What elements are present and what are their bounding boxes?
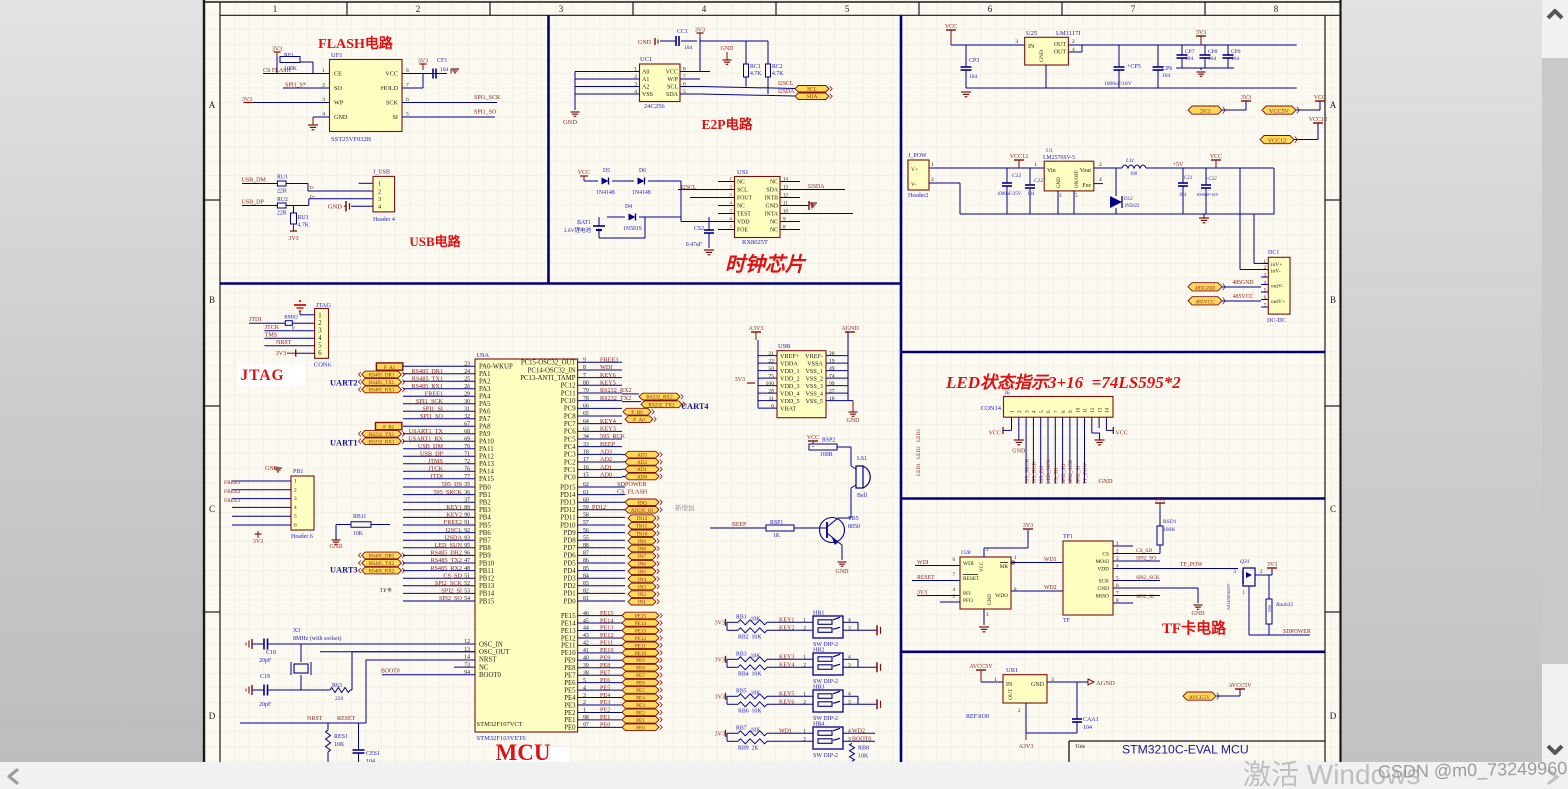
svg-text:RF1: RF1 [284,53,294,59]
svg-text:PE12: PE12 [561,635,576,642]
svg-text:1000uF/25V: 1000uF/25V [997,192,1022,197]
svg-text:SPI1_SI: SPI1_SI [422,405,443,412]
svg-text:RS485_DR1: RS485_DR1 [411,368,443,375]
svg-text:RB4 10K: RB4 10K [738,671,762,677]
svg-text:A3V3: A3V3 [1019,744,1034,750]
svg-text:PE12: PE12 [600,632,613,639]
svg-text:PA7: PA7 [479,416,491,423]
svg-text:C19: C19 [260,674,270,680]
svg-text:3V3: 3V3 [715,731,725,737]
svg-text:AGND: AGND [841,326,859,332]
svg-text:PE1: PE1 [636,718,645,724]
svg-text:SCL: SCL [737,188,748,194]
svg-text:PC7: PC7 [564,421,576,428]
svg-text:AVCC5V: AVCC5V [969,664,993,670]
svg-text:330: 330 [1267,605,1272,613]
svg-text:VDD_2: VDD_2 [780,375,800,382]
svg-text:PE15: PE15 [561,613,576,620]
svg-text:PD4: PD4 [564,568,577,575]
svg-text:PB10: PB10 [479,560,495,567]
svg-text:+C22: +C22 [1205,177,1217,182]
svg-text:PD2: PD2 [564,583,577,590]
svg-text:SPI2_SO: SPI2_SO [1061,463,1067,484]
svg-text:X3: X3 [293,628,300,634]
svg-text:4: 4 [1032,410,1038,413]
svg-text:J_USB: J_USB [373,170,390,176]
svg-text:P_A0: P_A0 [633,417,645,423]
svg-text:PE8: PE8 [564,665,576,672]
svg-text:USB_DP: USB_DP [420,450,444,457]
svg-text:PD5: PD5 [564,560,577,567]
svg-text:PA6: PA6 [479,409,491,416]
svg-text:UC1: UC1 [640,56,652,63]
svg-text:PC1: PC1 [564,467,576,474]
svg-text:IN7: IN7 [638,554,646,560]
svg-text:C21: C21 [1184,176,1192,181]
svg-text:MOSI: MOSI [1096,559,1110,565]
svg-text:1: 1 [931,162,934,168]
svg-text:IN5: IN5 [638,569,646,575]
svg-text:GND: GND [1097,586,1109,592]
svg-text:3.6V锂电池: 3.6V锂电池 [564,226,592,234]
svg-text:FLASH电路: FLASH电路 [318,35,394,52]
svg-text:24C256: 24C256 [644,103,665,110]
svg-text:RS485_RX2: RS485_RX2 [430,565,462,572]
svg-text:3: 3 [378,196,381,203]
svg-text:A3V3: A3V3 [749,326,764,332]
svg-text:IN2: IN2 [638,592,646,598]
svg-text:VREF+: VREF+ [780,353,800,360]
svg-text:485VCC: 485VCC [1233,294,1254,300]
svg-text:PFO: PFO [963,598,973,604]
svg-text:CS2: CS2 [694,226,704,232]
svg-text:PE14: PE14 [600,617,613,624]
svg-text:HB4: HB4 [813,721,824,727]
svg-text:PB11: PB11 [479,568,494,575]
svg-text:TF1: TF1 [1063,534,1073,540]
svg-text:FREE2: FREE2 [444,519,462,526]
svg-text:PD12: PD12 [592,504,606,511]
svg-text:KEY2: KEY2 [779,625,794,631]
svg-text:CES1: CES1 [366,751,380,757]
svg-text:CAA1: CAA1 [1083,717,1099,723]
svg-text:IN: IN [1028,44,1035,50]
svg-text:C12: C12 [1012,173,1021,179]
svg-text:RB11: RB11 [353,514,366,520]
svg-text:SCL: SCL [807,87,818,93]
svg-text:3V3: 3V3 [288,236,298,242]
svg-text:TEST: TEST [737,212,751,218]
svg-text:PE4: PE4 [564,695,576,702]
svg-text:8050: 8050 [848,524,860,530]
svg-text:LM1117I: LM1117I [1056,30,1080,37]
svg-text:7: 7 [1054,410,1060,413]
svg-text:595_SRCK: 595_SRCK [433,489,462,496]
svg-text:Q31: Q31 [1240,559,1250,565]
svg-text:KEY2: KEY2 [446,512,462,519]
svg-text:LM2576SV-5: LM2576SV-5 [1043,155,1075,161]
svg-text:UART3: UART3 [330,566,358,575]
svg-text:595_DS: 595_DS [1039,466,1045,484]
svg-text:220: 220 [335,696,344,702]
svg-text:PB9: PB9 [479,553,491,560]
svg-text:PE0: PE0 [636,725,645,731]
svg-text:2: 2 [803,625,806,631]
svg-text:A: A [1330,100,1337,110]
svg-text:PC0: PC0 [564,475,576,482]
svg-text:5: 5 [845,4,850,14]
svg-text:100R: 100R [820,452,833,458]
svg-text:SDPOWER: SDPOWER [1283,629,1311,635]
svg-text:GND: GND [1098,478,1112,485]
svg-text:PB8: PB8 [479,545,491,552]
svg-text:SPI1_SCK: SPI1_SCK [474,95,501,101]
svg-text:104: 104 [1208,56,1217,62]
svg-text:GND: GND [334,114,348,121]
svg-text:595_RCK: 595_RCK [600,433,626,440]
svg-text:VCC12: VCC12 [1309,117,1327,123]
svg-text:PE10: PE10 [600,647,613,654]
svg-text:RB7: RB7 [736,725,747,731]
svg-text:6: 6 [318,350,322,357]
svg-text:SDA: SDA [806,94,817,100]
svg-text:KEY4: KEY4 [600,418,616,425]
svg-text:VSS_5: VSS_5 [805,398,823,405]
svg-text:RESET: RESET [337,716,356,722]
svg-text:VCC: VCC [385,71,398,78]
svg-text:VSS: VSS [642,92,653,98]
svg-text:J6: J6 [1005,391,1010,397]
svg-text:RS232_RX1: RS232_RX1 [369,440,395,445]
svg-text:US1: US1 [737,169,749,176]
svg-text:SDPOWER: SDPOWER [617,481,647,488]
svg-text:1N5822: 1N5822 [1124,204,1140,209]
svg-text:PE15: PE15 [600,610,613,617]
svg-text:SPI2_SO: SPI2_SO [439,595,463,602]
svg-text:CP9: CP9 [1231,49,1241,55]
svg-text:PE6: PE6 [600,677,610,684]
svg-text:PA12: PA12 [479,454,494,461]
svg-text:V+: V+ [911,167,918,173]
svg-text:RS485_TX1: RS485_TX1 [369,381,395,386]
svg-text:IN6: IN6 [638,562,646,568]
svg-text:PD1: PD1 [564,591,576,598]
svg-text:A: A [209,100,216,110]
svg-text:BOOT0: BOOT0 [852,736,871,742]
svg-text:4.7K: 4.7K [298,223,310,229]
svg-text:SPI2_SI: SPI2_SI [1075,465,1081,484]
svg-text:AD1: AD1 [637,467,647,473]
svg-text:SI: SI [392,114,398,121]
svg-text:JTDI: JTDI [430,473,443,480]
svg-text:IN10: IN10 [637,531,648,537]
svg-text:ON/OFF: ON/OFF [1075,170,1080,188]
svg-text:104: 104 [1083,725,1092,731]
svg-text:104: 104 [440,67,449,73]
svg-text:100K: 100K [1163,527,1175,533]
svg-text:inV+: inV+ [1271,262,1282,268]
svg-text:CP3: CP3 [969,58,979,64]
svg-text:VCC: VCC [1116,431,1128,437]
svg-text:PB1: PB1 [479,492,491,499]
svg-text:I2SCL: I2SCL [778,81,794,87]
svg-text:RS232_TX1: RS232_TX1 [369,433,395,438]
svg-text:PD11: PD11 [560,515,575,522]
svg-text:PA14: PA14 [479,469,494,476]
svg-text:RS485_RX2: RS485_RX2 [369,570,395,575]
svg-text:WP: WP [334,100,344,107]
svg-text:TF_POW: TF_POW [1180,562,1203,568]
svg-text:PE11: PE11 [561,643,575,650]
svg-text:RS485_RX1: RS485_RX1 [369,389,395,394]
svg-text:PE5: PE5 [636,688,645,694]
svg-text:VCC12: VCC12 [1268,138,1286,144]
svg-text:VCC5V: VCC5V [1269,109,1289,115]
svg-text:JDQ: JDQ [637,500,647,506]
svg-text:PE0: PE0 [564,725,576,732]
svg-text:PD12: PD12 [560,507,576,514]
svg-text:USB_DM: USB_DM [418,443,444,450]
svg-text:AVCC5V: AVCC5V [1228,683,1252,689]
svg-text:AD3: AD3 [600,449,612,456]
svg-text:RS485_TX2: RS485_TX2 [369,562,395,567]
svg-text:PC12: PC12 [560,383,576,390]
svg-text:DC-DC: DC-DC [1267,318,1286,324]
svg-text:UART4: UART4 [681,402,709,411]
svg-text:RS485_DR1: RS485_DR1 [369,374,395,379]
svg-text:LED2: LED2 [916,446,922,459]
svg-text:PE9: PE9 [600,655,610,662]
svg-text:10K: 10K [751,617,762,623]
svg-text:HB2: HB2 [813,647,824,653]
svg-text:W/P: W/P [667,77,678,83]
svg-text:PE7: PE7 [564,673,576,680]
svg-text:WDI: WDI [600,364,612,371]
svg-text:1: 1 [378,181,381,188]
svg-text:PC8: PC8 [564,413,576,420]
svg-text:SCK: SCK [1099,579,1110,585]
svg-text:FOUT: FOUT [737,196,753,202]
svg-text:outV+: outV+ [1271,299,1285,305]
svg-text:LED_SUN: LED_SUN [435,542,463,549]
svg-text:JTAG: JTAG [240,367,284,384]
svg-text:PFI: PFI [963,591,971,597]
svg-text:PE7: PE7 [600,669,610,676]
svg-text:2: 2 [931,177,934,183]
svg-text:3V3: 3V3 [418,59,428,65]
svg-text:JTDI: JTDI [249,317,261,323]
svg-text:8: 8 [1061,410,1067,413]
svg-text:PE3: PE3 [600,699,610,706]
svg-text:GND: GND [1039,50,1045,62]
svg-text:RES1: RES1 [334,734,348,740]
svg-text:PE2: PE2 [600,707,610,714]
svg-text:Header2: Header2 [908,193,928,199]
svg-text:A034/08/S2307: A034/08/S2307 [1226,583,1231,610]
svg-text:GND: GND [847,418,861,424]
svg-text:LED3: LED3 [916,429,922,442]
svg-text:PE9: PE9 [564,658,576,665]
svg-text:CS_SD: CS_SD [443,572,462,579]
svg-text:1000uF/16V: 1000uF/16V [1104,81,1132,87]
svg-text:GND: GND [1057,177,1062,188]
svg-text:FREE3: FREE3 [224,498,241,504]
svg-text:TF: TF [1063,618,1071,624]
svg-text:NC: NC [737,204,745,210]
svg-text:PA0-WKUP: PA0-WKUP [479,364,513,371]
svg-text:SPI2_SI: SPI2_SI [441,588,462,595]
svg-text:KEY6: KEY6 [600,372,616,379]
svg-text:RS232_TX2: RS232_TX2 [600,395,631,402]
svg-text:PE2: PE2 [636,710,645,716]
svg-text:inV-: inV- [1271,269,1281,275]
svg-text:595_RCK: 595_RCK [1032,462,1038,484]
svg-text:IN: IN [1006,682,1013,688]
svg-text:485GND: 485GND [1232,280,1253,286]
svg-text:RS485_RX1: RS485_RX1 [411,383,443,390]
svg-text:3V3: 3V3 [1023,523,1033,529]
svg-text:RU2: RU2 [277,197,288,203]
svg-text:I2SCL: I2SCL [681,185,697,191]
svg-text:UART1: UART1 [330,439,358,448]
svg-text:+5V: +5V [1173,162,1184,168]
svg-text:SW DIP-2: SW DIP-2 [813,753,838,759]
svg-text:GND: GND [265,466,279,472]
svg-text:PB5: PB5 [479,522,491,529]
svg-text:AGND: AGND [1096,680,1115,687]
svg-text:1K: 1K [773,533,781,539]
svg-text:LED_SUN: LED_SUN [1046,460,1052,484]
svg-text:RB5: RB5 [736,688,747,694]
svg-text:7: 7 [1131,4,1136,14]
svg-text:PB3: PB3 [479,507,491,514]
svg-text:BEEP: BEEP [600,441,616,448]
svg-text:PB13: PB13 [479,583,495,590]
svg-text:2: 2 [318,320,322,327]
svg-text:E2P电路: E2P电路 [701,116,753,132]
svg-text:IN11: IN11 [637,524,648,530]
svg-text:1: 1 [803,654,806,660]
svg-text:595_DS: 595_DS [442,481,463,488]
svg-text:2: 2 [1099,162,1102,168]
svg-text:PC2: PC2 [564,459,576,466]
svg-text:3: 3 [294,496,297,502]
svg-text:CP6: CP6 [1162,66,1172,72]
svg-text:Fee: Fee [1082,183,1091,189]
svg-text:PA9: PA9 [479,431,491,438]
svg-text:USB_DM: USB_DM [242,178,267,184]
svg-text:11: 11 [1083,408,1089,413]
svg-text:MR: MR [1000,564,1009,570]
svg-text:1: 1 [273,4,278,14]
svg-text:B: B [1330,295,1336,305]
svg-text:3V3: 3V3 [1155,497,1165,503]
svg-text:6: 6 [988,4,993,14]
svg-text:C12: C12 [1034,178,1043,184]
svg-text:IN1: IN1 [638,600,646,606]
svg-text:1000uF/16V: 1000uF/16V [1196,192,1220,197]
svg-text:2: 2 [803,736,806,742]
svg-text:USB_DP: USB_DP [242,200,265,206]
svg-text:PE3: PE3 [636,703,645,709]
svg-text:PE13: PE13 [561,628,576,635]
svg-text:VSS_3: VSS_3 [805,383,823,390]
svg-text:TB5: TB5 [848,516,859,522]
svg-text:JTCK: JTCK [265,325,280,331]
svg-text:AD2: AD2 [637,460,647,466]
svg-text:RC2: RC2 [772,64,783,70]
svg-text:2: 2 [294,487,297,493]
svg-text:CP8: CP8 [1208,49,1218,55]
svg-text:2: 2 [803,662,806,668]
svg-text:VDD_5: VDD_5 [780,398,800,405]
svg-text:WDI: WDI [963,561,974,567]
svg-text:PE4: PE4 [600,692,610,699]
svg-text:PB12: PB12 [479,576,495,583]
svg-text:14: 14 [1105,407,1111,413]
svg-text:USART1_TX: USART1_TX [409,428,444,435]
svg-text:LED1: LED1 [916,463,922,476]
svg-text:PE11: PE11 [600,640,613,647]
svg-text:1: 1 [318,312,321,319]
svg-text:RS485_TX1: RS485_TX1 [412,375,443,382]
svg-text:AD2: AD2 [600,456,612,463]
svg-text:CF1: CF1 [437,58,447,64]
svg-text:WDO: WDO [995,593,1008,599]
svg-text:3: 3 [559,4,564,14]
svg-text:2: 2 [416,4,421,14]
svg-text:RB6 10K: RB6 10K [738,708,762,714]
svg-text:SPI1_SO: SPI1_SO [474,110,497,116]
svg-text:D: D [1330,711,1337,721]
svg-text:D4: D4 [625,204,632,210]
svg-text:PE5: PE5 [600,684,610,691]
svg-text:VSSA: VSSA [807,360,823,367]
svg-text:D5: D5 [603,168,610,174]
svg-text:KEY4: KEY4 [779,662,794,668]
svg-text:PE5: PE5 [564,687,576,694]
svg-text:10K: 10K [353,531,364,537]
svg-text:C: C [1330,504,1336,514]
svg-text:VCC: VCC [1210,154,1222,160]
svg-text:CS: CS [1102,552,1109,558]
svg-text:SST25VF032B: SST25VF032B [331,136,372,143]
svg-text:RB1: RB1 [736,614,747,620]
svg-text:LS1: LS1 [857,456,867,462]
svg-text:3V3: 3V3 [735,377,745,383]
svg-text:PA8: PA8 [479,424,491,431]
svg-text:2: 2 [378,188,381,195]
svg-text:TMS: TMS [265,332,277,338]
svg-text:1: 1 [803,691,806,697]
svg-text:1N4148: 1N4148 [632,190,651,196]
svg-text:GND: GND [328,204,342,211]
svg-text:5: 5 [1039,410,1045,413]
svg-text:GND: GND [721,46,735,52]
svg-text:Header 4: Header 4 [373,217,395,223]
svg-text:FOE: FOE [737,228,748,234]
svg-text:U9B: U9B [778,343,791,350]
svg-text:SPI1_SO: SPI1_SO [420,413,444,420]
svg-text:UF1: UF1 [331,52,343,59]
svg-text:VBAT: VBAT [780,405,796,412]
svg-text:8: 8 [1274,4,1279,14]
svg-text:I2SDA: I2SDA [778,89,795,95]
svg-text:3: 3 [1015,39,1018,45]
svg-text:PA2: PA2 [479,379,491,386]
svg-text:1: 1 [803,728,806,734]
svg-text:PB1: PB1 [293,469,303,475]
